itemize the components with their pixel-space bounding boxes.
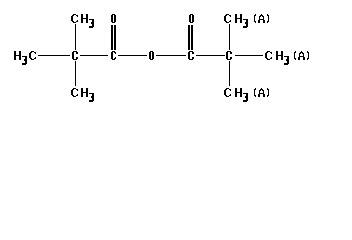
atom O2 (anhydride oxygen) <box>149 51 154 60</box>
wire bond C2-C5 <box>80 55 108 56</box>
wire bond C7-C8 (vertical) <box>229 24 230 50</box>
atom O3 (carbonyl oxygen) <box>189 14 194 23</box>
wire bond C2-C4 (vertical) <box>75 61 76 86</box>
wire bond C7-C10 <box>235 55 263 56</box>
wire bond C2-C3 (vertical) <box>75 24 76 50</box>
wire bond C7-C9 (vertical) <box>229 61 230 86</box>
atom C5 (carbonyl carbon) <box>111 51 116 60</box>
wire bond C6-C7 <box>196 55 225 56</box>
wire double bond C5=O1 <box>111 25 116 50</box>
atom label CH3 (methyl C4, bottom) <box>71 88 94 102</box>
atom label CH3 (methyl C3, top) <box>71 14 94 28</box>
atom label CH3 (A) (methyl C8, top) <box>224 14 269 28</box>
atom O1 (carbonyl oxygen) <box>111 14 116 23</box>
wire bond C1-C2 <box>38 55 70 56</box>
atom C6 (carbonyl carbon) <box>188 51 194 60</box>
atom label H3C (methyl C1) <box>14 51 36 65</box>
atom label CH3 (A) (methyl C10, right) <box>265 51 309 65</box>
wire double bond C6=O3 <box>188 25 193 50</box>
wire bond O2-C6 <box>156 55 186 56</box>
wire bond C5-O2 <box>118 55 147 56</box>
atom C7 (quaternary carbon) <box>226 51 232 60</box>
atom C2 (quaternary carbon) <box>72 51 78 60</box>
atom label CH3 (A) (methyl C9, bottom) <box>224 88 269 102</box>
